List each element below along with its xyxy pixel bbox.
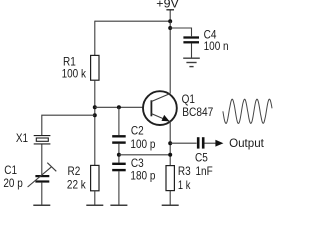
- capacitor C2: [112, 136, 126, 142]
- svg-text:20 p: 20 p: [3, 177, 22, 190]
- svg-text:100 k: 100 k: [62, 68, 87, 81]
- svg-text:100 p: 100 p: [130, 138, 155, 151]
- svg-text:1 k: 1 k: [178, 179, 191, 192]
- svg-text:X1: X1: [16, 132, 28, 145]
- wire midpoint to emitter: [119, 154, 170, 156]
- svg-text:Q1: Q1: [182, 93, 195, 106]
- junction base node: [93, 105, 97, 109]
- C5 value labels: [195, 152, 213, 179]
- wire C4 to ground: [191, 43, 193, 57]
- wire C1 to ground: [41, 183, 43, 205]
- capacitor C3: [112, 164, 126, 170]
- wire supply stub: [169, 10, 171, 21]
- svg-text:R1: R1: [63, 55, 76, 68]
- junction emitter C3 node: [168, 153, 172, 157]
- wire C4 branch: [170, 28, 191, 36]
- junction C4 branch: [168, 26, 172, 30]
- +9V label: [156, 0, 179, 11]
- C2 value labels: [130, 124, 155, 150]
- resistor R3: [166, 166, 174, 191]
- junction C2 top: [117, 105, 121, 109]
- X1 label: [16, 132, 28, 145]
- wire C2 to C3: [118, 144, 120, 163]
- ground R3: [162, 204, 179, 206]
- wire X1 horizontal: [42, 115, 95, 135]
- R3 value labels: [178, 165, 191, 192]
- ground R2: [86, 204, 103, 206]
- ground C1: [33, 204, 50, 206]
- wire top rail: [95, 20, 170, 22]
- wire R3 to ground: [169, 191, 171, 205]
- svg-text:C2: C2: [131, 124, 144, 137]
- svg-text:C5: C5: [195, 152, 208, 165]
- trimmer capacitor C1: [28, 163, 57, 187]
- junction output node: [168, 141, 172, 145]
- sine wave symbol: [223, 99, 272, 123]
- svg-text:+9V: +9V: [156, 0, 179, 11]
- C3 value labels: [130, 157, 155, 183]
- wire rail to R1: [94, 21, 96, 56]
- junction C2 C3 midpoint: [117, 153, 121, 157]
- svg-text:R2: R2: [68, 165, 81, 178]
- +9V terminal bar: [166, 9, 174, 11]
- ground C3: [110, 204, 127, 206]
- R2 value labels: [67, 165, 86, 192]
- svg-text:C1: C1: [4, 164, 17, 177]
- wire emitter: [169, 122, 171, 166]
- svg-text:BC847: BC847: [182, 106, 213, 119]
- ground C4: [183, 58, 200, 66]
- output arrow: [215, 140, 223, 147]
- Output label: [229, 137, 265, 150]
- svg-text:Output: Output: [229, 137, 265, 150]
- svg-text:100 n: 100 n: [204, 40, 229, 53]
- resistor R2: [91, 165, 99, 190]
- wire C2 top: [118, 107, 120, 135]
- R1 value labels: [62, 55, 87, 80]
- wire C3 to ground: [118, 171, 120, 205]
- junction supply rail: [168, 19, 172, 23]
- resistor R1: [91, 55, 99, 80]
- wire base: [95, 106, 143, 108]
- wire R1 to R2 column: [94, 80, 96, 165]
- wire output: [170, 142, 196, 144]
- C4 value labels: [204, 29, 229, 54]
- capacitor C5: [198, 137, 203, 148]
- wire X1 to C1: [41, 145, 43, 176]
- crystal X1: [34, 136, 51, 144]
- C1 value labels: [3, 164, 22, 190]
- Q1 labels: [182, 93, 214, 119]
- wire R2 to ground: [94, 191, 96, 205]
- svg-text:180 p: 180 p: [130, 169, 155, 182]
- junction X1 node: [93, 113, 97, 117]
- svg-text:22 k: 22 k: [67, 179, 86, 192]
- capacitor C4: [183, 38, 199, 43]
- wire collector: [169, 21, 171, 93]
- svg-text:C3: C3: [131, 157, 144, 170]
- svg-text:R3: R3: [178, 165, 191, 178]
- wire C5 to arrow: [205, 142, 217, 144]
- svg-text:1nF: 1nF: [196, 165, 213, 178]
- transistor Q1: [143, 91, 177, 125]
